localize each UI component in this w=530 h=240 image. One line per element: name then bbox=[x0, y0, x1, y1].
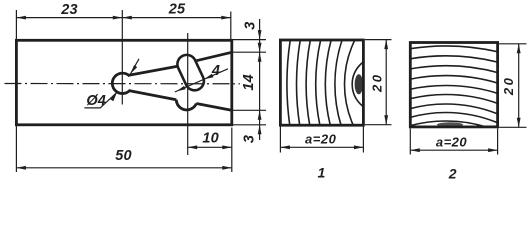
dimension 4 at obround bbox=[175, 69, 228, 92]
svg-text:Ø4: Ø4 bbox=[86, 93, 106, 109]
slanted obround slot (crossing taper) bbox=[177, 55, 204, 90]
semicircular bulge below bottom taper line bbox=[176, 100, 196, 110]
extension line left edge above bbox=[15, 10, 17, 40]
square 1 dimension a=20 bbox=[279, 127, 281, 153]
svg-text:2: 2 bbox=[448, 166, 457, 182]
svg-text:10: 10 bbox=[202, 130, 219, 146]
svg-text:20: 20 bbox=[369, 73, 384, 93]
dimension 23 bbox=[16, 17, 122, 19]
extension line right of 25 above bbox=[230, 12, 232, 40]
square 1 dimension 20 bbox=[365, 39, 392, 41]
square 2 dimension a=20 bbox=[409, 129, 411, 155]
wire top taper line of slot bbox=[129, 66, 178, 75]
square 2 dimension 20 bbox=[499, 43, 526, 45]
dimension 25 bbox=[122, 17, 231, 19]
dimension 3 top bbox=[259, 19, 261, 140]
square 1 outline bbox=[280, 40, 363, 125]
svg-text:23: 23 bbox=[60, 2, 78, 18]
wood grain rings square 1 bbox=[287, 0, 530, 240]
vertical centerline / extension through obround bbox=[187, 33, 189, 155]
horizontal centerline bbox=[5, 83, 241, 85]
svg-text:20: 20 bbox=[501, 76, 516, 96]
vertical centerline / extension through hole bbox=[121, 10, 123, 105]
svg-text:a=20: a=20 bbox=[436, 134, 468, 149]
dimension 50 bbox=[16, 167, 231, 169]
extension lines right side bbox=[233, 39, 266, 41]
dimension 10 bbox=[188, 146, 232, 148]
svg-text:a=20: a=20 bbox=[305, 131, 337, 146]
extension line right edge below bbox=[231, 128, 233, 173]
extension line left edge below bbox=[15, 126, 17, 173]
plate outline (template body) bbox=[16, 40, 231, 125]
square 2 outline bbox=[410, 43, 497, 127]
svg-text:3: 3 bbox=[242, 135, 258, 143]
hole Ø4 (open to taper slot) bbox=[112, 73, 130, 93]
dimension 3 bottom bbox=[258, 125, 262, 135]
svg-text:25: 25 bbox=[168, 2, 186, 18]
leader and label Ø4 bbox=[84, 92, 117, 108]
svg-text:3: 3 bbox=[243, 21, 259, 29]
svg-text:4: 4 bbox=[211, 63, 220, 79]
wire bottom taper line of slot bbox=[129, 91, 176, 100]
dimension 14 bbox=[258, 43, 262, 53]
svg-text:50: 50 bbox=[115, 148, 132, 164]
wood grain rings square 2 bbox=[216, 46, 530, 240]
svg-text:14: 14 bbox=[241, 74, 257, 91]
svg-text:1: 1 bbox=[318, 164, 326, 180]
